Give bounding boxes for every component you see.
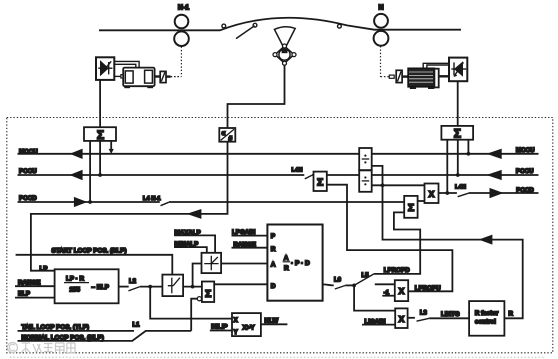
S1 output to PCCU	[99, 141, 101, 175]
junction dot PCCD right	[445, 191, 449, 195]
scan artifact dotted line bottom	[10, 356, 545, 358]
L4N switch arm (PCCU)	[305, 175, 312, 179]
PCCD left bus	[18, 201, 405, 203]
LIGAIN wire	[362, 324, 395, 326]
svg-text:R: R	[271, 246, 276, 253]
control system boundary (dotted)	[7, 118, 553, 353]
svg-text:L2: L2	[129, 279, 137, 285]
svg-text:X: X	[429, 189, 435, 199]
right drive converter U2	[449, 58, 467, 82]
wire dot to comparator X input	[150, 287, 232, 319]
-1 wire	[382, 295, 395, 297]
looper angle feedback wire	[228, 65, 285, 128]
summer S4 PCCU+LPROPU	[314, 172, 327, 191]
LPROPU feedback wire to summer S4	[327, 185, 453, 292]
svg-text:PCCU: PCCU	[516, 168, 534, 175]
MCCU right arrow	[489, 150, 501, 158]
PCCU left arrow	[72, 171, 82, 179]
svg-text:X: X	[399, 286, 405, 296]
svg-text:LP · R: LP · R	[66, 276, 85, 283]
left tacho dashed link	[171, 76, 182, 78]
MINALP wire	[174, 247, 207, 253]
M2 armature link	[439, 75, 449, 77]
svg-text:X: X	[234, 318, 238, 324]
svg-text:L6: L6	[334, 277, 342, 283]
left motor terminal stub	[121, 75, 123, 78]
svg-text:#: #	[229, 135, 233, 142]
M2 end cap	[434, 69, 438, 88]
svg-text:– ELP: – ELP	[92, 284, 110, 291]
svg-text:control: control	[475, 319, 496, 326]
svg-text:Σ: Σ	[205, 288, 211, 300]
looper roll on strip	[253, 23, 257, 27]
angle feedback arrow	[190, 210, 201, 217]
LPGAIN wire to P pin	[232, 235, 268, 237]
svg-text:Σ: Σ	[408, 202, 414, 214]
svg-text:ELP: ELP	[18, 291, 30, 298]
MCCU left arrow	[72, 150, 82, 158]
limiter output to A pin	[221, 263, 267, 265]
summer S3 position error	[202, 282, 214, 303]
multiplier X2	[395, 308, 407, 328]
looper arm	[236, 26, 255, 39]
M2 field wires to converter	[423, 63, 449, 68]
right motor M2 body (hatched)	[408, 68, 434, 87]
svg-text:N: N	[378, 5, 383, 12]
RANGE wire	[15, 285, 55, 287]
svg-text:P: P	[271, 233, 276, 240]
multiplier X3	[425, 184, 439, 204]
D signal to integrator wire	[354, 285, 395, 310]
S3 minus input circle	[197, 297, 201, 301]
strip guide roller left	[222, 24, 226, 28]
svg-text:PCCD: PCCD	[19, 195, 37, 202]
R feedback arrow	[481, 236, 491, 243]
M2 foot right	[428, 87, 434, 89]
TLP wire	[18, 330, 135, 332]
right tacho dashed link	[381, 76, 390, 78]
M1 shaft	[155, 75, 161, 77]
S2 output to PCCU	[457, 140, 459, 175]
looper pivot circle	[279, 49, 290, 60]
comparator X>Y box	[232, 313, 261, 336]
thyristor symbol U1	[98, 61, 112, 75]
svg-text:Σ: Σ	[97, 128, 104, 142]
reference generator box	[55, 269, 119, 303]
divider box top	[359, 148, 372, 170]
L4N switch arm (PCCD right)	[458, 193, 469, 197]
stand N lower roll	[374, 31, 389, 46]
X3 output / PCCD right bus	[439, 192, 539, 194]
PCCU bus (gap at L4N switch)	[18, 174, 539, 176]
svg-text:X: X	[399, 314, 405, 324]
svg-text:A: A	[271, 262, 276, 269]
multiplier X1	[395, 280, 408, 301]
L6 switch arm	[335, 286, 345, 290]
svg-text:· P · D: · P · D	[291, 260, 310, 267]
U2 reference wire down	[457, 81, 459, 126]
svg-text:X>Y: X>Y	[243, 324, 256, 331]
L5 lower contact wire to X1	[375, 283, 395, 285]
riser to alpha limiter	[193, 264, 202, 287]
MAXALP wire	[174, 235, 215, 252]
divider box bottom	[359, 170, 372, 191]
junction dot D signal	[352, 284, 356, 288]
angle feedback wire to LP	[31, 142, 228, 271]
svg-text:255: 255	[70, 286, 81, 293]
right roll sensor dotted wire	[380, 46, 382, 76]
PCCD left arrow	[75, 198, 85, 206]
wire L2 to ramp box	[140, 286, 163, 288]
svg-text:L4N: L4N	[292, 167, 303, 173]
svg-text:L5: L5	[362, 273, 370, 279]
svg-text:Y: Y	[234, 330, 238, 336]
L3 switch arm	[417, 318, 430, 321]
X2 output to L3	[408, 317, 415, 319]
junction dot R distribution	[381, 183, 385, 187]
M2 foot left	[410, 87, 416, 89]
PID output to L6	[323, 284, 334, 285]
left motor M1 body	[123, 68, 154, 87]
ramp output wire	[183, 286, 202, 288]
U1 armature wire	[114, 75, 121, 77]
svg-text:R: R	[284, 265, 289, 272]
left tacho stub	[166, 75, 171, 77]
svg-text:TAIL LOOP POS. (TLP): TAIL LOOP POS. (TLP)	[22, 324, 90, 331]
S3 output to D pin	[214, 283, 267, 285]
RANGE wire to R pin	[232, 247, 268, 249]
HLP wire	[210, 330, 232, 332]
svg-text:PCCU: PCCU	[19, 168, 37, 175]
svg-text:START LOOP POS. (SLP): START LOOP POS. (SLP)	[52, 248, 127, 255]
R to multiplier X3 wire	[372, 184, 425, 186]
HLW output wire	[261, 323, 288, 325]
LINTG wire	[429, 317, 469, 319]
svg-text:L4 N-1: L4 N-1	[143, 196, 161, 202]
stand N-1 upper roll	[175, 15, 189, 29]
left roll sensor dotted wire	[180, 47, 182, 77]
right motor shaft	[402, 75, 408, 77]
S2 output to PCCD junction	[446, 140, 448, 193]
svg-text:R factor: R factor	[475, 310, 499, 317]
pivot corner circle left	[273, 53, 277, 57]
M1 foot left	[124, 86, 130, 88]
svg-text:α: α	[222, 131, 226, 137]
svg-text:A: A	[284, 255, 289, 262]
R feedback wire	[372, 166, 523, 318]
alpha limiter box	[202, 253, 222, 273]
looper swing sector	[274, 27, 295, 46]
pivot center block	[282, 50, 288, 54]
L5 switch arm	[354, 274, 374, 286]
S2 output to MCCU	[467, 140, 469, 154]
M1 winding right	[145, 70, 153, 83]
svg-text:L1: L1	[133, 322, 141, 328]
svg-text:R: R	[509, 310, 514, 317]
ELP wire	[15, 297, 55, 299]
MCCU bus	[18, 153, 539, 155]
S1 output to MCCU arrow	[110, 141, 112, 149]
svg-text:LINTG: LINTG	[441, 311, 460, 318]
summer S1 stand N-1	[84, 127, 116, 141]
svg-text:L4N: L4N	[455, 185, 466, 191]
strip line through stand N-1	[99, 18, 461, 31]
stand N upper roll	[374, 14, 388, 28]
SLP wire	[16, 255, 173, 275]
svg-text:D: D	[271, 283, 276, 290]
svg-text:LP: LP	[40, 265, 48, 272]
svg-text:L3: L3	[420, 310, 428, 316]
looper pivot diamond	[275, 46, 294, 63]
L4 N-1 switch arm	[161, 202, 169, 206]
svg-text:MCCU: MCCU	[516, 147, 535, 154]
M1 foot right	[147, 86, 153, 88]
PCCU right arrow	[489, 171, 501, 179]
right tacho stub	[389, 75, 394, 78]
pivot corner circle top	[283, 44, 287, 48]
right coupling	[396, 70, 402, 82]
summer S2 stand N	[441, 126, 473, 140]
angle transducer a/#	[219, 128, 235, 142]
stand N-1 lower roll	[174, 31, 189, 46]
S1 output to PCCD	[89, 141, 91, 202]
junction dot L2	[148, 285, 152, 289]
PCCD right arrow	[490, 189, 500, 197]
svg-text:Σ: Σ	[317, 176, 323, 188]
svg-text:LPROPD: LPROPD	[384, 267, 410, 274]
svg-text:N-1: N-1	[178, 5, 189, 12]
L2 switch	[119, 286, 129, 288]
svg-text:Σ: Σ	[454, 127, 461, 141]
left drive converter U1	[96, 57, 114, 80]
watermark	[8, 343, 76, 354]
M1 winding left	[125, 71, 133, 83]
left coupling	[160, 71, 166, 82]
svg-text:HLW: HLW	[265, 318, 279, 325]
junction dot ramp output	[191, 285, 195, 289]
wire L6 to junction	[345, 284, 354, 286]
LPROPD wire to summer S5	[374, 212, 420, 274]
NLP wire with L1 arm	[18, 331, 192, 341]
ramp rate limiter box	[162, 275, 183, 297]
S5 output to X3	[418, 200, 425, 202]
U1 to motor field wires	[114, 61, 139, 67]
thyristor symbol U2	[451, 62, 466, 77]
L1 selected wire riser	[191, 299, 197, 331]
R factor control box	[469, 301, 504, 336]
strip guide roller right	[338, 24, 342, 28]
PID controller box	[267, 225, 322, 301]
svg-text:MCCU: MCCU	[19, 148, 38, 155]
summer S5 PCCD	[404, 196, 417, 218]
U1 reference wire down	[99, 80, 101, 127]
pivot corner circle bottom	[283, 61, 287, 65]
pivot corner circle right	[292, 53, 296, 57]
